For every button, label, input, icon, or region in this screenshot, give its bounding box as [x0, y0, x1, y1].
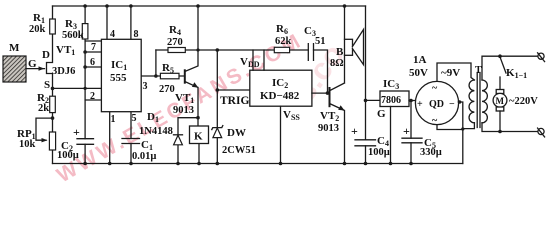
svg-text:~9V: ~9V	[441, 67, 460, 79]
svg-text:S: S	[44, 79, 50, 91]
svg-text:20k: 20k	[29, 24, 46, 35]
svg-text:R5: R5	[162, 62, 174, 75]
svg-text:3DJ6: 3DJ6	[52, 66, 75, 77]
svg-text:100µ: 100µ	[368, 147, 390, 158]
svg-text:4: 4	[110, 29, 115, 40]
svg-text:DW: DW	[227, 127, 246, 139]
svg-text:8: 8	[134, 29, 139, 40]
svg-text:VT1: VT1	[56, 44, 75, 57]
svg-text:KD−482: KD−482	[260, 90, 300, 102]
svg-text:51: 51	[315, 36, 326, 47]
svg-text:K1−1: K1−1	[506, 67, 527, 80]
svg-text:100µ: 100µ	[57, 150, 79, 161]
svg-text:0.01µ: 0.01µ	[132, 151, 156, 162]
svg-text:TRIG: TRIG	[220, 95, 249, 107]
svg-text:+: +	[73, 125, 80, 139]
svg-text:7: 7	[91, 42, 96, 53]
svg-text:2k: 2k	[38, 103, 49, 114]
svg-text:5: 5	[132, 113, 137, 124]
svg-text:1A: 1A	[413, 54, 427, 66]
svg-text:~220V: ~220V	[509, 96, 538, 107]
svg-text:~: ~	[432, 83, 438, 94]
svg-text:B: B	[336, 46, 344, 58]
svg-text:330µ: 330µ	[420, 147, 442, 158]
svg-text:QD: QD	[429, 99, 444, 110]
svg-text:G: G	[377, 108, 386, 120]
svg-text:T: T	[475, 65, 482, 76]
svg-text:IC3: IC3	[383, 78, 399, 91]
svg-text:7806: 7806	[381, 95, 401, 106]
svg-text:1: 1	[111, 114, 116, 125]
svg-text:G: G	[28, 58, 37, 70]
svg-text:~: ~	[432, 116, 438, 127]
svg-text:3: 3	[143, 81, 148, 92]
svg-text:560k: 560k	[62, 30, 84, 41]
svg-text:+: +	[351, 124, 358, 138]
svg-text:270: 270	[159, 84, 175, 95]
svg-text:555: 555	[110, 72, 127, 84]
svg-text:1N4148: 1N4148	[139, 126, 173, 137]
svg-text:10k: 10k	[19, 139, 36, 150]
svg-text:R4: R4	[169, 24, 181, 37]
svg-text:R6: R6	[276, 23, 288, 36]
svg-text:VT2: VT2	[320, 110, 339, 123]
svg-text:−: −	[449, 99, 455, 110]
svg-text:62k: 62k	[275, 36, 292, 47]
svg-text:D: D	[42, 49, 50, 61]
svg-text:K: K	[194, 131, 203, 143]
svg-text:50V: 50V	[409, 67, 428, 79]
svg-text:8Ω: 8Ω	[330, 58, 344, 69]
svg-text:M: M	[9, 42, 20, 54]
svg-text:9013: 9013	[173, 105, 194, 116]
svg-text:270: 270	[167, 37, 183, 48]
svg-text:VSS: VSS	[283, 109, 300, 122]
svg-text:+: +	[417, 99, 423, 110]
svg-text:M: M	[496, 96, 505, 106]
svg-text:+: +	[403, 124, 410, 138]
svg-text:6: 6	[90, 57, 95, 68]
svg-text:2CW51: 2CW51	[222, 145, 256, 156]
svg-text:9013: 9013	[318, 123, 339, 134]
svg-text:2: 2	[90, 91, 95, 102]
